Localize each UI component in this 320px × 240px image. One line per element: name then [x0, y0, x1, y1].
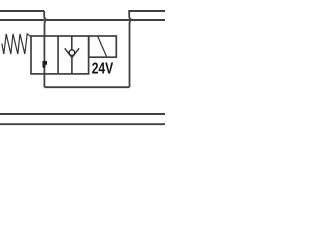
spring (return spring, left of valve)	[2, 34, 31, 54]
wire vertical drop left with hop over rail B	[44, 11, 46, 36]
label 24V	[92, 60, 114, 77]
solenoid diagonal	[98, 36, 107, 57]
wire vertical right with hop over rail B	[129, 11, 131, 87]
wire top rail A right segment	[128, 10, 165, 12]
check valve stem (top) in right box	[71, 36, 73, 50]
bottom rail D	[0, 123, 165, 125]
svg-text:24V: 24V	[92, 60, 114, 77]
valve body (two position boxes)	[31, 36, 89, 74]
check valve seat V	[65, 48, 79, 57]
valve position divider	[57, 36, 59, 74]
wire top rail A left segment	[0, 10, 44, 12]
wire rail B right segment	[132, 19, 165, 21]
check valve stem (bottom)	[71, 58, 73, 74]
solenoid coil box U1	[89, 36, 117, 57]
wire rail B left segment	[0, 19, 44, 21]
check valve ball	[69, 50, 75, 56]
flow direction arrow (solid) in left box	[43, 61, 48, 68]
wire flow line through valve left box	[43, 36, 45, 87]
bottom rail C	[0, 113, 165, 115]
wire rail B middle segment	[47, 19, 130, 21]
wire loop bottom	[44, 86, 129, 88]
